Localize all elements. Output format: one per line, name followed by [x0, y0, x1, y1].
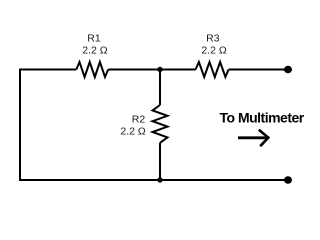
resistor R2 [153, 105, 168, 143]
terminal dot (top right, to multimeter) [284, 66, 292, 73]
node A (junction dot, top) [157, 67, 162, 72]
resistor R3 [196, 62, 229, 77]
svg-text:To Multimeter: To Multimeter [220, 110, 305, 126]
svg-text:R1: R1 [87, 33, 101, 45]
wire: R1 right end to node A [108, 69, 160, 71]
wire: left loop (top-left from R1 left end, down left side, along bottom to node B) [20, 70, 160, 181]
arrow to multimeter: head [259, 130, 269, 146]
arrow to multimeter: shaft [238, 136, 266, 139]
svg-text:R3: R3 [206, 32, 220, 44]
svg-text:R2: R2 [132, 114, 146, 126]
svg-text:2.2 Ω: 2.2 Ω [82, 45, 108, 57]
resistor R1 [76, 62, 108, 77]
wire: R2 bottom to node B [159, 143, 161, 180]
wire: node B to bottom terminal [160, 179, 288, 181]
wire: node A down to R2 top [159, 70, 161, 106]
svg-text:2.2 Ω: 2.2 Ω [201, 44, 227, 56]
terminal dot (bottom right, to multimeter) [284, 176, 292, 183]
node B (junction dot, bottom) [157, 177, 162, 182]
wire: node A to R3 left end [160, 69, 196, 71]
wire: R3 right end to top terminal [229, 69, 288, 71]
svg-text:2.2 Ω: 2.2 Ω [120, 126, 146, 138]
